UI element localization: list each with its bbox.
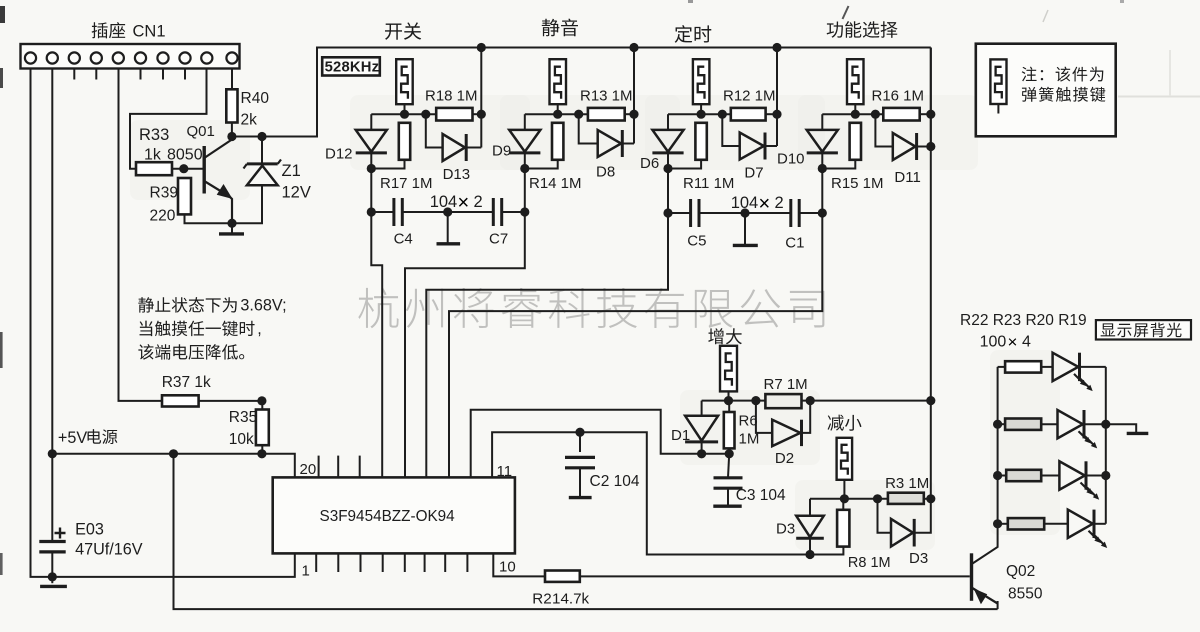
riser output node key2 (633, 48, 635, 144)
wire R35 top stub (261, 401, 263, 410)
svg-text:R17 1M: R17 1M (380, 175, 433, 192)
wire R39 to emitter node (185, 214, 233, 223)
wire R40 to collector node (231, 123, 233, 137)
wire key pad to row (700, 104, 702, 114)
resistor R3 (888, 493, 924, 504)
junction top rail / key2 output (629, 43, 638, 52)
wire R6 top stub (728, 401, 730, 412)
resistor R19 (1008, 518, 1044, 529)
wire to ground row B (744, 213, 746, 245)
note text line2 (1022, 87, 1105, 102)
wire bus to resistor R20 (998, 475, 1007, 477)
MCU top pin stub (359, 456, 361, 478)
wire D13 anode loop (426, 114, 443, 147)
svg-text:R12 1M: R12 1M (723, 88, 776, 105)
node D13 anode drop (421, 110, 430, 119)
wire C3 to ground (727, 489, 729, 507)
wire R7 to rail drop (802, 400, 931, 402)
wire +5V line to MCU pin20 (52, 454, 294, 478)
wire D7 anode loop (722, 114, 739, 146)
node C2 top (575, 428, 584, 437)
node R12 right (772, 110, 781, 119)
wire D12 cathode (370, 153, 372, 169)
wire LED cathode to right bus (1094, 523, 1106, 525)
capacitor C7 (493, 198, 501, 226)
wire node row key1 (371, 113, 436, 115)
CN1 pin7 stub (162, 69, 164, 80)
node LED bus (993, 519, 1002, 528)
svg-text:D10: D10 (777, 151, 805, 168)
stub to ground symbol (51, 577, 53, 583)
wire CN1 pin5 to R37 (119, 69, 163, 401)
svg-text:D9: D9 (492, 143, 511, 160)
wire R8 top stub (842, 499, 844, 510)
label 增大 (708, 328, 742, 344)
node key line key4 (818, 164, 827, 173)
svg-text:8550: 8550 (1008, 586, 1043, 603)
wire to backlight ground (1106, 424, 1136, 433)
wire bus to resistor R22 (998, 366, 1006, 368)
resistor R18 (436, 108, 472, 121)
riser output node key3 (776, 48, 778, 147)
svg-text:×: × (458, 192, 470, 214)
scan artifacts (edge) (0, 6, 5, 23)
wire CN1 pin9 to R33 (130, 69, 207, 169)
svg-text:R8 1M: R8 1M (848, 555, 891, 571)
diode D12 (356, 130, 387, 152)
scan artifact tick above 功能选择 (843, 6, 849, 19)
wire R37 to R35 node (199, 400, 262, 402)
svg-text:C7: C7 (489, 231, 508, 248)
connector CN1 (21, 44, 240, 69)
node 增大 key / R6 (724, 396, 733, 405)
svg-text:R15 1M: R15 1M (831, 175, 884, 192)
wire resistor to LED (1041, 423, 1057, 425)
touch key 增大 (720, 346, 737, 392)
wire D11 anode loop (875, 114, 892, 146)
wire MCU pin10 to R2 (493, 553, 545, 576)
svg-text:C2 104: C2 104 (590, 473, 640, 490)
svg-text:R6: R6 (739, 413, 758, 430)
node D11 cathode / rail drop (926, 142, 935, 151)
svg-text:R14 1M: R14 1M (529, 175, 582, 192)
node D8 anode drop (574, 110, 583, 119)
resistor R15 (850, 123, 861, 160)
svg-text:14.7k: 14.7k (552, 591, 590, 608)
node +5V / R35 (257, 449, 266, 458)
node cap row A center (443, 207, 452, 216)
wire node row key2 (525, 113, 588, 115)
wire D3 cathode to pin11 line (809, 538, 811, 554)
wire C2 to ground (579, 468, 581, 498)
wire E03 to ground node (51, 552, 53, 577)
wire MCU pin11 to C2/R8 (492, 432, 843, 554)
svg-text:R11 1M: R11 1M (683, 175, 734, 192)
resistor R16 (883, 108, 919, 121)
svg-text:D12: D12 (325, 146, 353, 163)
touch key 功能选择 (847, 59, 864, 104)
wire D2 anode loop (756, 401, 772, 433)
wire row to D9 anode (524, 114, 526, 130)
label 定时 (675, 25, 712, 43)
svg-text:Q01: Q01 (187, 123, 215, 140)
node C7/key2 line (520, 207, 529, 216)
wire 减小 pad to row (843, 480, 845, 499)
wire bottom rail (+5V to Q02 emitter) (174, 454, 998, 609)
node cathode bus row2 (1101, 420, 1110, 429)
capacitor C4 (394, 198, 402, 226)
light arrows R20/LED3 (1081, 483, 1092, 494)
MCU bottom pin stub (404, 553, 406, 572)
svg-text:R16 1M: R16 1M (872, 88, 925, 105)
touch key 静音 (550, 59, 567, 104)
note box spring touch key (976, 44, 1116, 137)
label 开关 (385, 22, 421, 39)
wire LED bus / Q02 collector (973, 367, 998, 564)
wire CN1 pin2 / +5V feed (51, 69, 53, 543)
svg-text:D2: D2 (775, 450, 794, 467)
CN1 pin3 stub (73, 69, 75, 80)
node ground rail left (48, 572, 57, 581)
wire Z1 to ground node (232, 185, 262, 223)
diode D11 (893, 133, 916, 160)
touch key 开关 (396, 59, 413, 104)
wire D7 cathode loop (765, 145, 777, 147)
resistor R22 (1005, 361, 1041, 372)
svg-text:R39: R39 (150, 185, 178, 202)
riser output node key4 (930, 48, 932, 147)
node key line key2 (520, 164, 529, 173)
wire resistor to LED (1044, 523, 1068, 525)
svg-text:D7: D7 (744, 165, 763, 182)
node C5/key3 line (663, 208, 672, 217)
MCU top pin stub (318, 456, 320, 478)
wire Q02 emitter to bottom rail (997, 601, 999, 609)
node R7/D2 right (806, 396, 815, 405)
diode D6 (652, 130, 683, 152)
info text 3.68V (138, 297, 236, 313)
svg-text:R33: R33 (139, 126, 169, 144)
wire C1 to key4 line (799, 212, 822, 214)
wire key4 cathode to cap row (821, 168, 823, 213)
svg-text:20: 20 (300, 461, 317, 478)
wire 减小 node row (810, 498, 888, 500)
wire key pad to row (404, 104, 406, 114)
node D11 anode drop (871, 110, 880, 119)
wire LED cathode to right bus (1084, 423, 1106, 425)
MCU top pin stub (337, 456, 339, 478)
node rail drop / R3 (926, 494, 935, 503)
wire R33 to Q01 base (172, 168, 204, 170)
svg-text:D11: D11 (894, 169, 920, 186)
node C1/key4 line (818, 208, 827, 217)
diode D8 (598, 130, 621, 157)
node R16 right (926, 110, 935, 119)
MCU bottom pin stub (315, 553, 317, 572)
wire to ground row A (447, 212, 449, 244)
watermark text (358, 288, 824, 329)
resistor R33 (136, 162, 172, 175)
wire key1 line to MCU pin16 (371, 212, 382, 477)
wire bus to resistor R19 (998, 523, 1008, 525)
touch key symbol (note) (990, 59, 1006, 104)
ground E03 (40, 585, 67, 588)
resistor R23 (1005, 419, 1041, 430)
wire resistor to LED (1041, 475, 1059, 477)
junction top rail / key1 output (477, 43, 486, 52)
wire node row key3 (668, 113, 731, 115)
wire R15 bottom to key line (822, 160, 855, 169)
wire R35 bottom stub (261, 445, 263, 454)
wire C7 to key2 line (502, 211, 525, 213)
wire D2 cathode loop (802, 401, 811, 433)
node +5V / C-E03 (48, 449, 57, 458)
wire key pad to row (557, 104, 559, 114)
node D2 anode drop (751, 396, 760, 405)
diode D2 (772, 420, 800, 446)
wire R6 bottom stub (728, 448, 730, 453)
resistor R2 (545, 571, 580, 582)
node D7 anode drop (718, 110, 727, 119)
wire C2 top stub (579, 432, 581, 452)
node Q01 collector (227, 132, 236, 141)
svg-text:R3 1M: R3 1M (885, 475, 929, 492)
wire R14 bottom to key line (525, 160, 558, 169)
wire top rail drop (right bus) (930, 48, 932, 499)
svg-text:R40: R40 (241, 90, 270, 107)
svg-text:D3: D3 (776, 521, 795, 538)
svg-text:R37 1k: R37 1k (162, 374, 211, 391)
wire CN1 pin1 to ground rail (31, 69, 53, 577)
ground Q01 (219, 232, 244, 235)
capacitor C1 (791, 199, 799, 227)
svg-text:104: 104 (731, 194, 759, 212)
node D1 cathode (697, 449, 706, 458)
svg-text:528KHz: 528KHz (325, 60, 380, 76)
ground C2 (569, 496, 592, 499)
stub below note key symbol (997, 104, 999, 114)
wire D8 anode loop (579, 114, 598, 143)
capacitor C2 (565, 457, 595, 467)
wire LED cathode to right bus (1080, 366, 1106, 368)
wire collector node to top key rail (232, 48, 931, 137)
wire D3R anode loop (878, 499, 892, 533)
diode D3 (left) (796, 516, 824, 537)
wire node row key4 (822, 113, 883, 115)
resistor R12 (731, 108, 766, 121)
node D3 cathode / pin11 line (805, 550, 814, 559)
node Z1 top (257, 132, 266, 141)
node C4/key1 line (367, 207, 376, 216)
wire R17 bottom to key line (371, 160, 404, 169)
wire D10 cathode (821, 153, 823, 169)
node cap row B center (740, 208, 749, 217)
wire D1 cathode row (702, 453, 730, 455)
touch key 定时 (693, 59, 710, 104)
svg-text:D1: D1 (671, 427, 690, 444)
svg-text:10k: 10k (229, 431, 254, 448)
resistor R6 (724, 412, 735, 448)
svg-text:C3 104: C3 104 (736, 487, 786, 504)
wire D9 cathode (524, 153, 526, 169)
svg-text:R35: R35 (229, 409, 257, 426)
node key line key3 (663, 164, 672, 173)
node LED bus (993, 420, 1002, 429)
wire to C3 (728, 454, 729, 478)
wire ground node to C1 (745, 212, 790, 214)
svg-text:×: × (759, 193, 771, 215)
node 减小 key / R8 (840, 494, 849, 503)
svg-text:D6: D6 (640, 155, 659, 172)
node key/R14 top (553, 110, 562, 119)
svg-text:R22 R23 R20 R19: R22 R23 R20 R19 (960, 312, 1087, 329)
wire row to D3 anode (809, 499, 811, 516)
svg-text:D13: D13 (443, 166, 471, 183)
wire row to output node (920, 113, 931, 115)
resistor R37 (162, 395, 199, 406)
wire CN1 pin10 to R40 (231, 69, 233, 90)
frequency note 528KHz (322, 57, 380, 75)
svg-text:D3: D3 (909, 550, 928, 567)
MCU bottom pin stub (466, 553, 468, 572)
CN1 pin8 stub (184, 69, 186, 80)
ground C3 (713, 505, 741, 508)
node Q01 base / R39 (179, 164, 188, 173)
node key/R17 top (400, 110, 409, 119)
label 静音 (542, 19, 578, 37)
wire key2 line to MCU pin15 (405, 212, 525, 477)
label 功能选择 (827, 21, 898, 38)
svg-text:C5: C5 (687, 233, 706, 250)
wire C4 to ground node (402, 211, 447, 213)
label 显示屏背光 (1101, 323, 1182, 338)
svg-text:10: 10 (499, 559, 516, 576)
svg-text:3.68V;: 3.68V; (240, 297, 286, 315)
wire row to D12 anode (370, 114, 372, 130)
svg-text:104: 104 (430, 193, 458, 211)
wire key3 line to MCU pin14 (426, 213, 668, 477)
node key/R11 top (697, 110, 706, 119)
MCU bottom pin stub (382, 553, 384, 572)
node cathode bus row3 (1101, 471, 1110, 480)
wire row to output node (473, 113, 482, 115)
node D3R anode drop (873, 494, 882, 503)
svg-text:2: 2 (474, 193, 483, 211)
resistor R39 (178, 178, 191, 214)
ground cap row B (733, 244, 758, 247)
wire D6 cathode (667, 153, 669, 169)
svg-text:2: 2 (775, 194, 784, 212)
wire row to output node (766, 113, 777, 115)
MCU bottom pin stub (337, 553, 339, 572)
box 显示屏背光 (1096, 320, 1191, 339)
wire row to D1 anode (701, 401, 703, 416)
wire key4 line to MCU pin13 (449, 213, 822, 477)
LED LED1 (1053, 353, 1079, 381)
wire capacitor row C5/C1 (667, 169, 669, 214)
wire row to D6 anode (667, 114, 669, 130)
node LED bus (993, 471, 1002, 480)
node R6/C3 (725, 449, 734, 458)
capacitor C3 (714, 478, 743, 488)
label 插座 CN1 (92, 22, 126, 38)
svg-text:220: 220 (150, 208, 176, 225)
wire row to output node (625, 113, 634, 115)
svg-text:4: 4 (1022, 334, 1031, 351)
svg-text:S3F9454BZZ-OK94: S3F9454BZZ-OK94 (320, 508, 456, 525)
ground backlight (1127, 432, 1149, 435)
svg-text:,: , (257, 320, 262, 338)
ground cap row A (437, 242, 461, 245)
capacitor E03 (electrolytic) (39, 542, 65, 552)
wire ground rail to MCU pin1 (52, 553, 294, 577)
resistor R13 (588, 108, 625, 121)
riser output node key1 (480, 48, 482, 148)
MCU bottom pin stub (444, 553, 446, 572)
svg-text:11: 11 (497, 463, 513, 480)
diode D9 (509, 130, 540, 152)
wire MCU pin12 to D1 cathode (471, 410, 702, 478)
resistor R20 (1006, 470, 1041, 481)
svg-text:100: 100 (980, 334, 1007, 351)
transistor Q01 (202, 146, 205, 194)
wire key pad to row (854, 104, 856, 114)
light arrows R23/LED2 (1079, 431, 1090, 442)
IC U1 S3F9454BZZ-OK94 (273, 477, 515, 553)
svg-text:D8: D8 (596, 164, 615, 181)
svg-text:Q02: Q02 (1006, 563, 1035, 580)
diode D1 (685, 416, 718, 441)
node key line key1 (367, 164, 376, 173)
wire 增大 pad to row (728, 391, 730, 400)
node key/R15 top (851, 110, 860, 119)
wire D13 cathode loop (466, 147, 481, 149)
transistor Q02 (970, 553, 973, 601)
wire D3R cathode loop (914, 499, 931, 533)
node emitter/ground (227, 219, 236, 228)
wire D8 cathode loop (622, 143, 634, 145)
svg-text:C1: C1 (785, 235, 804, 252)
label 减小 (828, 415, 862, 431)
svg-text:CN1: CN1 (133, 23, 166, 41)
node R18 right (477, 110, 486, 119)
MCU bottom pin stub (360, 553, 362, 572)
resistor R17 (399, 123, 410, 160)
resistor R14 (552, 123, 563, 160)
diode D10 (807, 130, 838, 152)
node rail drop / R7 (926, 396, 935, 405)
svg-text:R7 1M: R7 1M (764, 376, 808, 393)
junction top rail / key3 output (772, 43, 781, 52)
light arrows R22/LED1 (1074, 374, 1085, 385)
resistor R7 (765, 394, 801, 408)
CN1 pin4 stub (95, 69, 97, 80)
wire R3 to rail drop (924, 498, 931, 500)
diode D13 (443, 134, 465, 161)
LED LED2 (1058, 410, 1083, 438)
wire C5 to ground node (699, 212, 745, 214)
node R13 right (629, 110, 638, 119)
wire R2 to Q02 base (580, 575, 970, 577)
resistor R40 (226, 89, 237, 122)
node +5V / bottom rail drop (169, 449, 178, 458)
svg-text:47Uf/16V: 47Uf/16V (75, 541, 143, 559)
LED LED3 (1059, 461, 1084, 489)
LED LED4 (1068, 510, 1093, 538)
light arrows R19/LED4 (1089, 531, 1100, 542)
svg-text:Z1: Z1 (282, 162, 301, 180)
svg-text:+5V: +5V (58, 429, 87, 447)
